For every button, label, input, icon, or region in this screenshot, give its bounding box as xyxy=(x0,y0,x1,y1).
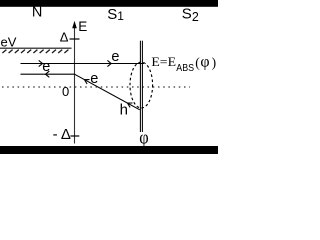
junction barrier right line xyxy=(141,41,143,132)
N Fermi level line (eV) xyxy=(0,47,72,49)
chemical potential dotted line xyxy=(2,86,190,88)
svg-text:eV: eV xyxy=(1,35,17,50)
svg-text:N: N xyxy=(32,4,42,20)
E axis arrowhead xyxy=(72,21,77,29)
electron return path xyxy=(21,73,75,75)
arrowhead e right (first) xyxy=(39,60,43,66)
arrowhead h on diagonal xyxy=(128,103,133,107)
top black bar xyxy=(0,0,218,7)
arrowhead e right (second) xyxy=(107,60,111,66)
bottom black bar xyxy=(0,146,218,154)
Delta tick xyxy=(70,38,80,40)
svg-text:Δ: Δ xyxy=(60,30,69,45)
Andreev bound state dashed ellipse xyxy=(130,62,153,108)
Andreev diagonal path xyxy=(75,74,140,110)
svg-text:e: e xyxy=(42,59,50,75)
hatching under Fermi level xyxy=(2,50,68,53)
minus Delta tick xyxy=(71,135,80,137)
svg-text:0: 0 xyxy=(62,84,69,99)
svg-text:E: E xyxy=(78,19,87,34)
arrowhead e on diagonal xyxy=(85,80,90,84)
svg-text:): ) xyxy=(212,55,217,70)
svg-text:e: e xyxy=(111,49,119,65)
svg-text:e: e xyxy=(90,71,98,87)
E axis xyxy=(74,26,76,144)
svg-text:- Δ: - Δ xyxy=(53,126,71,143)
svg-text:φ: φ xyxy=(139,128,148,149)
svg-text:S1: S1 xyxy=(107,6,124,23)
svg-text:ABS: ABS xyxy=(176,63,194,74)
electron path at energy E xyxy=(21,63,145,65)
arrowhead e left xyxy=(46,71,50,77)
svg-text:h: h xyxy=(120,102,128,119)
svg-text:E=E: E=E xyxy=(151,54,176,69)
svg-text:φ: φ xyxy=(200,53,209,70)
junction barrier left line xyxy=(139,41,141,132)
